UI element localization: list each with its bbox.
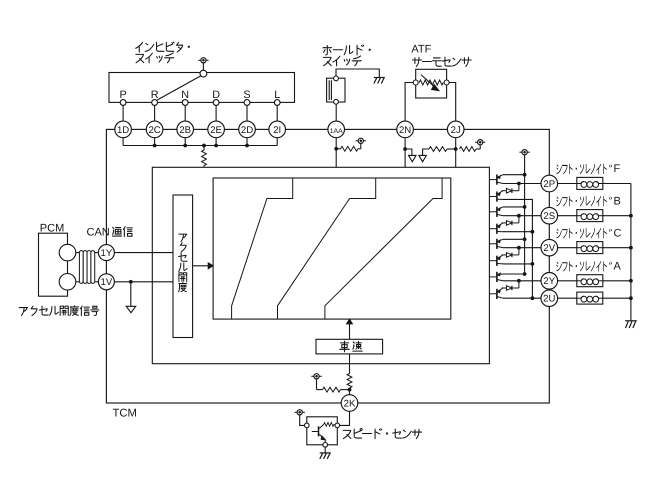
- connector pin 1D: [115, 121, 132, 138]
- inhibitor switch fixed contacts: [120, 100, 280, 106]
- wire 1Y to accel-opening block: [114, 252, 173, 254]
- accel opening block (アクセル開度): [173, 195, 193, 338]
- wire output to solenoid (row y=215.7): [558, 215, 577, 217]
- wire solenoid to ground bus: [603, 183, 631, 185]
- diode D3 (flyback): [502, 248, 519, 258]
- solenoid coil L-C: [577, 242, 603, 254]
- resistor R1 (sense bus pull): [202, 146, 207, 168]
- speed sensor terminal left: [305, 423, 310, 428]
- junction supply bus: [523, 237, 527, 241]
- shift curve 1: [232, 178, 293, 319]
- speed sensor body box: [307, 417, 338, 445]
- diode D4 (flyback): [502, 281, 519, 291]
- wire collector Q7 to output: [503, 280, 541, 282]
- ground G3 (solenoids): [625, 321, 637, 328]
- resistor R5 (2K series): [347, 374, 352, 395]
- shift curve 3: [325, 178, 442, 319]
- PCM terminal lower: [59, 274, 76, 291]
- wire vehicle speed block down to connector 2K: [349, 354, 351, 374]
- svg-text:1Y: 1Y: [101, 248, 113, 259]
- label speed sensor (スピード・センサ): [343, 428, 422, 438]
- shift curve 2: [278, 178, 376, 319]
- resistor R4 (2J pull-up): [460, 145, 481, 152]
- wire output to solenoid (row y=183.5): [558, 183, 577, 185]
- speed sensor terminal right: [335, 423, 340, 428]
- shift map box: [213, 178, 451, 319]
- junction collector/diode: [517, 182, 521, 186]
- solenoid coil L-A: [577, 275, 603, 287]
- wires: connectors to sense bus: [123, 138, 277, 146]
- svg-text:2V: 2V: [543, 243, 555, 254]
- wire collector Q5 to output: [503, 247, 541, 249]
- thermistor RT1: [419, 75, 443, 91]
- junction ground bus: [629, 296, 633, 300]
- node 2K junction: [348, 388, 352, 392]
- svg-text:B: B: [614, 195, 621, 207]
- wire solenoid to ground bus: [603, 297, 631, 299]
- wire hold switch to ground: [336, 69, 379, 77]
- hold switch contact top: [334, 76, 339, 81]
- junction ground bus: [629, 246, 633, 250]
- wire 1V to accel-opening block: [114, 281, 173, 283]
- junction supply bus: [523, 272, 527, 276]
- node 2J junction: [454, 147, 458, 151]
- arrow accel block into map: [193, 263, 214, 269]
- wire driver supply bus: [524, 155, 526, 274]
- resistor R7 (speed sensor internal): [324, 423, 335, 427]
- connector pin 2S: [541, 207, 558, 224]
- svg-text:2Y: 2Y: [543, 276, 555, 287]
- wire ATF sensor to connector 2J: [449, 83, 456, 122]
- ground G2 (speed sensor): [320, 453, 331, 459]
- label thermo sensor (サーモセンサ): [412, 57, 471, 66]
- wire collector Q6: [503, 263, 532, 265]
- wire collector Q1 to output: [503, 183, 541, 185]
- connector pin 2C: [146, 121, 163, 138]
- power feed symbol B+ (2J pull-up): [475, 140, 485, 145]
- svg-text:2S: 2S: [543, 211, 555, 222]
- junction dots on sense bus: [153, 144, 249, 148]
- inhibitor switch SW1 body box: [109, 73, 295, 103]
- svg-text:1AA: 1AA: [330, 128, 343, 135]
- wire solenoid to ground bus: [603, 215, 631, 217]
- label shift solenoid C (ｼﾌﾄ･ｿﾚﾉｲﾄﾞC): [557, 227, 622, 239]
- wire collector Q4: [503, 231, 532, 233]
- wire output to solenoid (row y=280.8): [558, 280, 577, 282]
- power feed symbol B+ (2K pull-up): [311, 374, 321, 379]
- svg-text:ATF: ATF: [411, 43, 431, 55]
- wire solenoid to ground bus: [603, 247, 631, 249]
- TCM internal logic block box: [152, 167, 489, 363]
- wire emitter Q5 to supply bus: [503, 238, 525, 240]
- connector pin 2Y: [541, 273, 558, 290]
- inhibitor switch position labels P R N D S L: [119, 89, 280, 101]
- svg-text:2N: 2N: [399, 125, 411, 136]
- junction supply bus: [523, 205, 527, 209]
- ATF thermo sensor body box: [416, 69, 447, 98]
- label accel opening signal (アクセル開度信号): [19, 306, 99, 316]
- power feed symbol B+ (speed sensor): [295, 410, 305, 415]
- connector pin 2B: [177, 121, 194, 138]
- transistor Q4 (PNP driver): [489, 223, 503, 234]
- svg-text:1V: 1V: [101, 277, 113, 288]
- connector pin 1Y: [98, 245, 114, 261]
- TCM module outline box: [106, 129, 549, 403]
- svg-text:CAN: CAN: [87, 226, 110, 238]
- svg-text:2U: 2U: [543, 294, 555, 305]
- connector pin 2I: [269, 121, 286, 138]
- svg-text:2J: 2J: [451, 125, 461, 136]
- ground arrow (2N shield): [409, 155, 417, 161]
- solenoid coil L-B: [577, 210, 603, 222]
- junction supply bus: [523, 173, 527, 177]
- ground arrow (1V): [126, 306, 136, 312]
- transistor Q1 (PNP driver): [489, 175, 503, 185]
- twisted pair CAN bus: [76, 251, 99, 284]
- wire connector 2K to speed sensor: [340, 411, 350, 425]
- hold switch SW2 body: [327, 78, 345, 102]
- wire hold switch to connector 1AA: [335, 104, 337, 121]
- wire collector Q3 to output: [503, 215, 541, 217]
- label hold switch (ホールド・スイッチ): [323, 45, 371, 55]
- svg-text:2I: 2I: [273, 125, 281, 136]
- hold switch contact bottom: [334, 99, 339, 104]
- label shift solenoid F (ｼﾌﾄ･ｿﾚﾉｲﾄﾞF): [557, 163, 621, 175]
- diode D1 (flyback): [502, 184, 519, 194]
- svg-text:PCM: PCM: [40, 222, 64, 234]
- svg-text:F: F: [614, 163, 621, 175]
- svg-text:TCM: TCM: [113, 408, 137, 420]
- ground arrow (2J shield): [419, 155, 427, 161]
- connector pin 2P: [541, 175, 558, 192]
- resistor R2 (1AA pull-up): [336, 143, 361, 151]
- junction monitor line to 2U output: [531, 296, 535, 300]
- inhibitor switch selector pivot symbol: [198, 58, 208, 63]
- power feed symbol B+ (1AA pull-up): [356, 138, 366, 143]
- wire connector 1AA down into logic block: [335, 138, 337, 168]
- transistor Q8 (PNP driver): [489, 288, 503, 299]
- wire 1V junction down: [130, 282, 132, 307]
- inhibitor switch rotor contact: [200, 70, 207, 77]
- wire shield ground to resistor R3: [423, 149, 429, 155]
- transistor Q6 (PNP driver): [489, 255, 503, 266]
- connector pin 2D: [239, 121, 256, 138]
- label inhibitor switch (インヒビタ・スイッチ): [136, 42, 190, 52]
- transistor Q7 (PNP driver): [489, 272, 503, 282]
- wire power to speed sensor: [300, 415, 305, 426]
- svg-text:2B: 2B: [179, 125, 191, 136]
- wire solenoid to ground bus: [603, 280, 631, 282]
- transistor Q2 (PNP driver): [489, 191, 503, 202]
- junction collector/diode: [517, 214, 521, 218]
- PCM module box: [39, 233, 68, 296]
- speed sensor terminal bottom: [323, 443, 328, 448]
- wire speed sensor to ground: [324, 447, 326, 453]
- svg-text:2E: 2E: [210, 125, 222, 136]
- connector pin 2J: [447, 121, 464, 138]
- transistor Q5 (PNP driver): [489, 239, 503, 249]
- wire sense bus: [123, 145, 277, 147]
- label CAN communication (CAN通信): [87, 226, 110, 238]
- svg-text:C: C: [614, 227, 622, 239]
- wire connector 2N down into logic block: [404, 138, 406, 168]
- wire connector 2J down into logic block: [455, 138, 457, 168]
- wire solenoid ground bus: [630, 184, 632, 321]
- label shift solenoid B (ｼﾌﾄ･ｿﾚﾉｲﾄﾞB): [557, 195, 621, 207]
- connector pin 2U: [541, 290, 558, 307]
- solenoid coil L-2U return: [577, 292, 603, 304]
- junction collector/diode: [517, 279, 521, 283]
- wire collector Q2: [503, 199, 532, 298]
- junction ground bus: [629, 279, 633, 283]
- resistor R6 (2K pull-up): [317, 379, 350, 392]
- label shift solenoid A (ｼﾌﾄ･ｿﾚﾉｲﾄﾞA): [557, 261, 622, 273]
- wire ATF sensor to connector 2N: [405, 83, 413, 122]
- wire output to solenoid (row y=298.2): [558, 297, 577, 299]
- connector pin 2V: [541, 239, 558, 256]
- wire output to solenoid (row y=247.7): [558, 247, 577, 249]
- svg-text:2C: 2C: [148, 125, 160, 136]
- diode D2 (flyback): [502, 216, 519, 226]
- svg-text:2P: 2P: [543, 179, 555, 190]
- node 1AA pull junction: [334, 147, 338, 151]
- wire emitter Q1 to supply bus: [503, 174, 525, 176]
- connector pin 2K: [341, 395, 358, 412]
- ground G1 (hold switch): [374, 78, 385, 84]
- wire emitter Q7 to supply bus: [503, 273, 525, 275]
- power feed symbol B+ (solenoid drivers): [519, 150, 529, 155]
- transistor Q9 (speed sensor hall output): [312, 424, 326, 442]
- wire collector Q8: [503, 297, 541, 299]
- vehicle speed block (車速): [316, 339, 383, 354]
- node 1V ground junction: [129, 280, 133, 284]
- inhibitor switch movable arm (to R): [157, 76, 201, 100]
- wire R3 to node 2J: [447, 148, 456, 150]
- arrow vehicle speed into map: [347, 319, 353, 339]
- connector pin 1AA: [328, 121, 345, 138]
- wire 2N to shield ground: [405, 149, 412, 155]
- junction ground bus: [629, 214, 633, 218]
- wire pivot to rotor contact: [202, 63, 204, 70]
- svg-text:2K: 2K: [344, 398, 356, 409]
- connector pin 1V: [98, 274, 114, 290]
- transistor Q3 (PNP driver): [489, 207, 503, 217]
- connector pin 2E: [208, 121, 225, 138]
- svg-text:A: A: [614, 261, 622, 273]
- svg-text:1D: 1D: [117, 125, 129, 136]
- junction collector/diode: [517, 246, 521, 250]
- ATF sensor terminal right: [444, 80, 449, 85]
- solenoid coil L-F: [577, 177, 603, 189]
- wire emitter Q3 to supply bus: [503, 206, 525, 208]
- wires: switch contacts down to connectors 1D 2C 2B 2E 2D 2I: [123, 105, 277, 121]
- connector pin 2N: [397, 121, 414, 138]
- node 2N junction: [403, 147, 407, 151]
- ATF sensor terminal left: [413, 80, 418, 85]
- PCM terminal upper: [59, 244, 76, 261]
- resistor R3 (2J shunt): [429, 147, 447, 152]
- svg-text:2D: 2D: [241, 125, 253, 136]
